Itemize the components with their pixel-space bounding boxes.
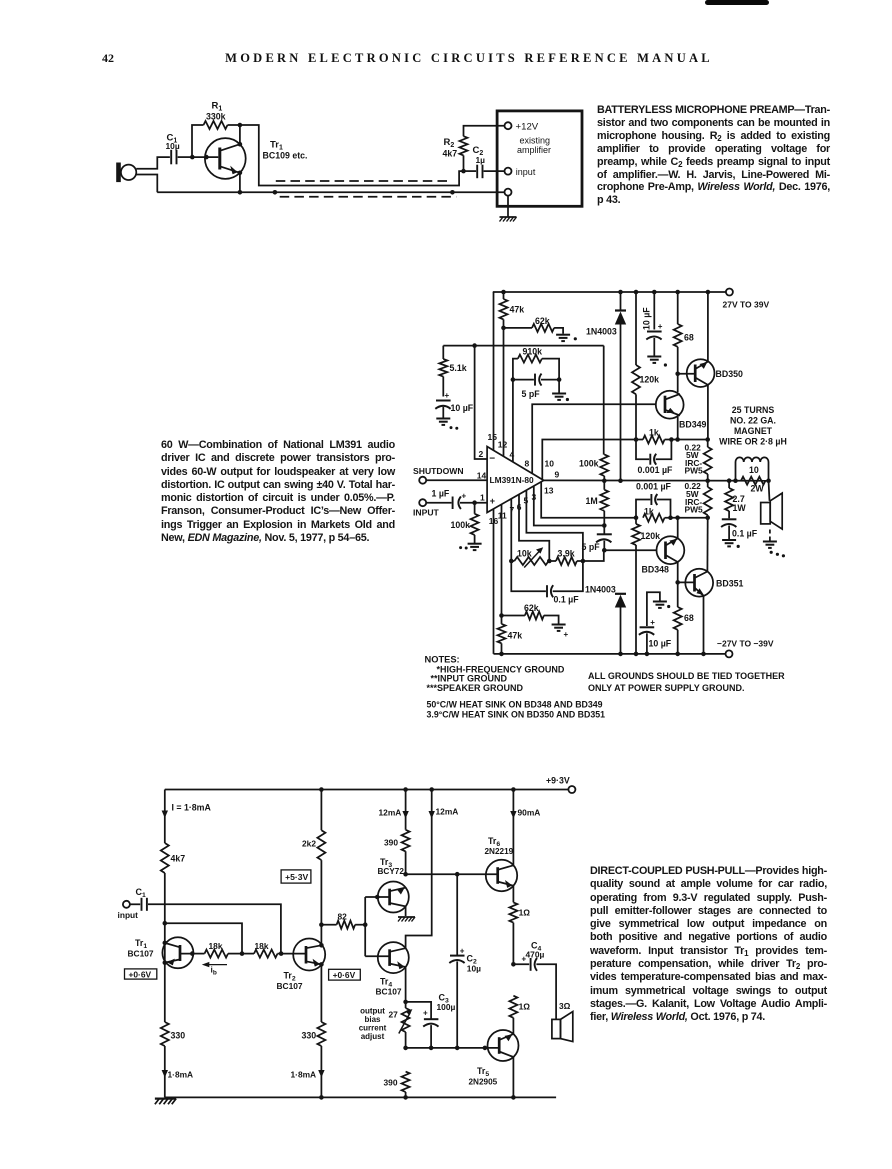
output line pin 9 (544, 479, 769, 481)
resistor R1 330k (204, 121, 228, 129)
svg-text:10 µF: 10 µF (451, 403, 474, 413)
caption: 60 W amplifier (161, 439, 395, 545)
svg-text:1Ω: 1Ω (519, 1002, 531, 1012)
input terminal (123, 901, 130, 908)
ground 5.1k/10uF (input ground) (436, 419, 450, 425)
resistor 1k upper (643, 436, 665, 444)
svg-text:13: 13 (544, 486, 554, 496)
svg-text:18k: 18k (209, 941, 223, 951)
capacitor C1 (171, 150, 176, 165)
transistor Tr6 2N2219 (486, 860, 517, 891)
svg-text:3Ω: 3Ω (559, 1001, 571, 1011)
resistor 1 ohm upper (512, 886, 514, 965)
wire node up to R1 (192, 125, 204, 157)
BD348 emitter wire up (677, 518, 679, 539)
transistor Tr3 BCY72 (378, 882, 409, 913)
running head title (23, 51, 892, 66)
svg-text:1·8mA: 1·8mA (291, 1070, 317, 1080)
current arrow I=1.8mA (162, 811, 168, 819)
svg-text:62k: 62k (524, 603, 539, 613)
resistor 4k7 (161, 843, 169, 873)
capacitor 0.1uF tone (511, 561, 546, 591)
resistor 1 ohm lower (509, 996, 517, 1018)
node base/R1 (190, 155, 195, 160)
svg-text:5.1k: 5.1k (450, 363, 467, 373)
BD351 collector wire down to rail (703, 596, 705, 654)
resistor 0.22 upper power (707, 440, 709, 448)
resistor R2 4k7 (460, 136, 468, 155)
svg-text:I = 1·8mA: I = 1·8mA (172, 803, 212, 813)
ground bottom rail (155, 1099, 176, 1105)
resistor 82 (321, 924, 336, 926)
resistor 390 lower (402, 1072, 410, 1092)
node 2k2/82 (319, 922, 324, 927)
node 120k/0.001 left (634, 437, 639, 442)
BD349 emitter wire down (677, 417, 679, 440)
node R1/collector (238, 123, 243, 128)
svg-text:***SPEAKER GROUND: ***SPEAKER GROUND (427, 683, 524, 693)
capacitor 0.001uF lower (636, 500, 650, 518)
dashed speaker ground lead (769, 530, 771, 541)
inductor L1 25 turns (736, 457, 769, 480)
potentiometer 10k (509, 559, 514, 564)
svg-text:330k: 330k (206, 112, 226, 122)
svg-text:3.9°C/W HEAT SINK ON BD350 AND: 3.9°C/W HEAT SINK ON BD350 AND BD351 (427, 710, 606, 720)
capacitor 5pF lower (596, 534, 612, 542)
BD348 base line (604, 549, 656, 551)
svg-text:BC107: BC107 (128, 949, 154, 959)
svg-text:+: + (462, 492, 467, 501)
pin 13 wire to 1k lower (541, 482, 636, 518)
svg-text:330: 330 (302, 1031, 317, 1041)
boxed label +0.6V (125, 969, 157, 979)
caption: batteryless microphone preamp (597, 104, 830, 207)
terminal input (505, 168, 512, 175)
svg-text:−27V TO −39V: −27V TO −39V (717, 639, 774, 649)
ground 910k (HF ground) (558, 380, 560, 393)
svg-text:15: 15 (488, 432, 498, 442)
wire +12V to R2 (464, 126, 505, 137)
pin 10 wire / 1k feed line (542, 440, 643, 480)
svg-text:1N4003: 1N4003 (585, 585, 616, 595)
svg-text:C1: C1 (136, 887, 147, 899)
node 47k/62k/pin12 (501, 326, 506, 331)
lower junction line (406, 1047, 488, 1049)
svg-text:WIRE OR 2·8 µH: WIRE OR 2·8 µH (719, 437, 787, 447)
svg-text:11: 11 (498, 511, 507, 521)
svg-text:47k: 47k (510, 305, 525, 315)
svg-text:BC107: BC107 (376, 987, 402, 997)
svg-text:BD350: BD350 (716, 369, 743, 379)
ground speaker (763, 542, 777, 548)
terminal INPUT (419, 499, 426, 506)
wire 3.9k to 5pF node (583, 550, 604, 561)
svg-text:PW5: PW5 (685, 505, 703, 515)
svg-text:1·8mA: 1·8mA (168, 1070, 194, 1080)
resistor 390 upper (405, 790, 407, 875)
svg-text:1 µF: 1 µF (432, 489, 450, 499)
svg-text:8: 8 (525, 459, 530, 469)
svg-text:68: 68 (684, 333, 694, 343)
svg-text:+: + (650, 618, 655, 627)
transistor Tr5 2N2905 (488, 1030, 519, 1061)
svg-text:390: 390 (384, 838, 398, 848)
svg-text:+: + (658, 322, 663, 331)
diode 1N4003 lower (615, 593, 626, 595)
ib arrow (206, 964, 227, 966)
input ground (468, 544, 482, 550)
svg-text:adjust: adjust (361, 1032, 385, 1041)
resistor 100k feedback (603, 346, 605, 455)
pin 16 riser to negative rail (493, 509, 495, 654)
resistor 47k upper (503, 292, 505, 299)
svg-text:1k: 1k (644, 507, 654, 517)
svg-text:910k: 910k (523, 347, 543, 357)
svg-text:R2: R2 (444, 137, 455, 149)
svg-text:14: 14 (477, 471, 487, 481)
Tr2 collector column with 2k2 (320, 790, 322, 1098)
svg-text:2N2219: 2N2219 (485, 847, 514, 856)
node pin2 riser (472, 343, 477, 348)
svg-text:input: input (516, 167, 536, 177)
feedback wire to 18k junction (165, 923, 242, 953)
ground zobel (speaker ground) (722, 540, 736, 546)
existing amplifier box (497, 111, 582, 206)
svg-text:1N4003: 1N4003 (586, 327, 617, 337)
svg-text:ib: ib (211, 965, 217, 977)
transistor Tr4 BC107 (378, 942, 409, 973)
current arrow 1.8mA Tr2 (318, 1070, 324, 1078)
resistor 5.1k (442, 346, 444, 359)
resistor 330 left (161, 1022, 169, 1046)
wire to C3 (406, 1002, 432, 1019)
transistor Q BD350 (678, 359, 715, 387)
svg-text:330: 330 (171, 1031, 186, 1041)
ground 62k lower (552, 625, 566, 631)
svg-text:3.9k: 3.9k (558, 549, 575, 559)
capacitor 10uF lower rail (639, 627, 654, 635)
resistor 100k input bias (474, 503, 476, 514)
terminal 27V TO 39V (726, 289, 733, 296)
wire C1 to base node (178, 156, 192, 158)
transistor Q BD351 (678, 569, 713, 597)
svg-text:NOTES:: NOTES: (425, 655, 460, 665)
svg-text:2W: 2W (751, 484, 765, 494)
terminal +12V (505, 122, 512, 129)
svg-text:BCY72: BCY72 (378, 867, 405, 876)
pin 12 riser wire (503, 328, 505, 456)
transistor Q BD349 (656, 391, 684, 419)
resistor 62k upper (504, 327, 533, 329)
node R2/C2/signal (461, 169, 466, 174)
resistor 330 Tr2 (317, 1022, 325, 1046)
pin 11 riser (501, 504, 503, 615)
wire collector up to R1 node (239, 125, 241, 144)
speaker SP1 (769, 481, 770, 501)
svg-text:1: 1 (480, 493, 485, 503)
node 5pF/base line (602, 548, 607, 553)
pin 15 riser wire to rail (493, 292, 495, 450)
node 910k/5pF left (511, 377, 516, 382)
svg-text:5 pF: 5 pF (522, 389, 541, 399)
svg-text:90mA: 90mA (518, 808, 541, 818)
wire to Tr6 base (406, 873, 486, 875)
svg-text:1W: 1W (733, 503, 747, 513)
svg-text:1Ω: 1Ω (519, 908, 531, 918)
op-amp U1 LM391N-80 (487, 447, 544, 513)
transistor Tr1 BC109 (192, 138, 245, 179)
svg-text:12mA: 12mA (436, 807, 459, 817)
svg-text:NO. 22 GA.: NO. 22 GA. (730, 416, 776, 426)
current arrow 1.8mA left (162, 1070, 168, 1078)
Tr4 emitter column (405, 967, 407, 1048)
resistor 62k lower (499, 613, 504, 618)
pin 2 riser wire (475, 346, 488, 459)
terminal +9.3V (568, 786, 575, 793)
resistor 1k lower (643, 514, 665, 522)
second rail drop 12mA (406, 790, 432, 949)
left column wire (Tr1 collector branch) (164, 790, 166, 1098)
svg-text:4k7: 4k7 (443, 149, 458, 159)
svg-text:100k: 100k (579, 459, 599, 469)
terminal SHUTDOWN pin14 (419, 477, 426, 484)
svg-text:100k: 100k (451, 520, 471, 530)
svg-text:PW5: PW5 (685, 466, 703, 476)
boxed label +0.6V second (329, 969, 361, 980)
svg-text:10k: 10k (517, 549, 532, 559)
BD350 collector wire to rail (707, 292, 709, 362)
capacitor 0.1uF zobel (721, 519, 736, 527)
terminal -27V TO -39V (726, 650, 733, 657)
pin 5 wire to 3.9k right node (526, 490, 583, 561)
svg-text:68: 68 (684, 613, 694, 623)
pin 8 wire to BD349 base (532, 404, 656, 473)
resistor 2.7 1W zobel (728, 481, 730, 488)
resistor 68 lower (677, 582, 679, 607)
resistor 3.9k (549, 560, 556, 562)
pin 3 wire to 1M/5pF node (534, 486, 605, 526)
svg-text:4k7: 4k7 (171, 854, 186, 864)
svg-text:1µ: 1µ (476, 155, 486, 165)
wire emitter down to ground rail (239, 173, 241, 193)
terminal ground (505, 189, 512, 196)
BD351 emitter wire up to 0.22 (706, 518, 708, 572)
black registration bar top right (705, 0, 769, 5)
svg-text:+: + (445, 391, 450, 400)
svg-text:10 µF: 10 µF (642, 307, 652, 330)
svg-text:470µ: 470µ (526, 950, 545, 960)
BD348 collector wire down (677, 562, 679, 582)
positive rail +9.3V (165, 789, 569, 791)
svg-text:25 TURNS: 25 TURNS (732, 405, 775, 415)
resistor 18k first (192, 953, 204, 955)
svg-text:10: 10 (749, 465, 759, 475)
capacitor 0.001uF upper (636, 440, 649, 460)
local ground block lower (HF ground) (647, 592, 660, 626)
pin 6 wire to pot wiper node (519, 494, 549, 561)
svg-text:SHUTDOWN: SHUTDOWN (413, 466, 464, 476)
node input/100k (472, 500, 477, 505)
svg-text:27V TO 39V: 27V TO 39V (723, 300, 770, 310)
svg-text:BD349: BD349 (679, 420, 706, 430)
wire mic to C1 and ground rail (136, 157, 170, 192)
svg-text:input: input (118, 910, 139, 920)
capacitor 10uF (shutdown filter) (435, 401, 450, 409)
svg-text:−: − (489, 454, 495, 465)
svg-text:LM391N-80: LM391N-80 (490, 475, 535, 485)
svg-text:47k: 47k (508, 631, 523, 641)
svg-text:120k: 120k (641, 531, 661, 541)
svg-text:100µ: 100µ (437, 1002, 456, 1012)
svg-text:BC109 etc.: BC109 etc. (263, 151, 308, 161)
ground 10uF upper (HF ground) (647, 357, 661, 363)
diode 1N4003 upper (620, 292, 622, 310)
svg-text:82: 82 (338, 912, 348, 922)
svg-text:0.1 µF: 0.1 µF (554, 595, 580, 605)
svg-text:+: + (460, 947, 465, 956)
capacitor 10uF upper rail (653, 292, 655, 330)
svg-text:2: 2 (479, 449, 484, 459)
svg-text:10: 10 (545, 459, 555, 469)
ground rail wire to amplifier (157, 191, 505, 193)
bias line y=345.6 (443, 345, 603, 347)
svg-text:existing: existing (520, 136, 551, 146)
ground 62k upper (HF ground) (556, 335, 570, 341)
node BD350 base / BD349 collector (675, 372, 680, 377)
svg-text:10µ: 10µ (166, 141, 180, 151)
current arrow 90mA (512, 790, 514, 866)
resistor 0.22 lower power (707, 481, 709, 487)
boxed label +5.3V (281, 870, 311, 883)
page number 42 (102, 51, 114, 66)
svg-text:BD351: BD351 (716, 579, 743, 589)
node 910k/5pF right (557, 377, 562, 382)
cable sheath dashed lines (276, 180, 449, 182)
svg-text:+: + (564, 630, 569, 639)
resistor 47k lower (501, 616, 503, 624)
svg-text:9: 9 (555, 470, 560, 480)
pin 4 riser wire (512, 380, 514, 462)
svg-text:1k: 1k (649, 428, 659, 438)
svg-text:10µ: 10µ (467, 964, 481, 974)
microphone (116, 163, 136, 183)
ground stem from amplifier (507, 196, 509, 217)
capacitor C2 1u (464, 170, 477, 172)
svg-text:+: + (423, 1009, 428, 1018)
node feedback (163, 921, 168, 926)
svg-text:27: 27 (389, 1010, 399, 1020)
resistor 1M (603, 481, 605, 490)
svg-text:ONLY AT POWER SUPPLY GROUND.: ONLY AT POWER SUPPLY GROUND. (588, 683, 745, 693)
resistor 120k lower (635, 518, 637, 524)
svg-text:10 µF: 10 µF (649, 639, 672, 649)
positive supply rail (493, 291, 726, 293)
capacitor C2 10uF (456, 874, 458, 955)
svg-text:+12V: +12V (516, 122, 539, 133)
signal wire from R1 node to R2/C2 node (240, 125, 463, 186)
svg-text:12mA: 12mA (379, 808, 402, 818)
svg-text:+9·3V: +9·3V (546, 776, 570, 786)
svg-text:5 pF: 5 pF (582, 542, 601, 552)
wire shutdown to pin 14 (426, 479, 487, 481)
svg-text:ALL GROUNDS SHOULD BE TIED TOG: ALL GROUNDS SHOULD BE TIED TOGETHER (588, 671, 785, 681)
svg-text:2k2: 2k2 (302, 839, 316, 849)
svg-text:+: + (490, 496, 495, 506)
svg-text:BC107: BC107 (277, 981, 303, 991)
svg-text:BD348: BD348 (642, 565, 669, 575)
capacitor 1uF input (426, 502, 451, 504)
caption: direct-coupled push-pull (590, 865, 827, 1025)
svg-text:390: 390 (384, 1078, 398, 1088)
svg-text:0.001 µF: 0.001 µF (638, 465, 674, 475)
transistor Tr1 BC107 (162, 937, 193, 968)
resistor 10 2W damping (741, 477, 765, 485)
resistor 120k upper (635, 292, 637, 365)
resistor 18k second (242, 953, 254, 955)
transistor Q BD348 (657, 536, 685, 564)
Tr3 collector to ground (405, 906, 407, 916)
riser to Tr3/Tr4 bases (365, 897, 378, 956)
svg-text:amplifier: amplifier (517, 145, 551, 155)
svg-text:+5·3V: +5·3V (285, 872, 308, 882)
negative rail (ground return) (165, 1096, 556, 1098)
svg-text:18k: 18k (255, 941, 269, 951)
transistor Tr2 BC107 (281, 939, 325, 971)
BD349 collector wire up (677, 374, 679, 393)
svg-text:Tr5: Tr5 (477, 1066, 489, 1078)
svg-text:1M: 1M (586, 496, 598, 506)
potentiometer 27 bias adjust (402, 1008, 410, 1032)
svg-text:MAGNET: MAGNET (734, 426, 773, 436)
ground (hatched) (500, 217, 517, 222)
svg-text:0.001 µF: 0.001 µF (636, 482, 672, 492)
capacitor C1 input (130, 903, 140, 905)
svg-text:0.1 µF: 0.1 µF (732, 529, 758, 539)
node 390/Tr3/line to Tr6 (403, 872, 408, 877)
svg-text:INPUT: INPUT (413, 508, 440, 518)
svg-text:62k: 62k (535, 316, 550, 326)
capacitor C3 100uF (423, 1019, 438, 1026)
svg-text:120k: 120k (640, 375, 660, 385)
resistor 68 upper (677, 292, 679, 324)
svg-text:+0·6V: +0·6V (333, 970, 356, 980)
svg-text:50°C/W HEAT SINK ON BD348 AND: 50°C/W HEAT SINK ON BD348 AND BD349 (427, 700, 603, 710)
resistor 910k (513, 359, 518, 380)
BD350 emitter wire down (707, 385, 709, 440)
node 1M/5pF (602, 523, 607, 528)
capacitor C4 470uF (513, 963, 529, 965)
capacitor 5pF compensation (513, 379, 534, 381)
resistor 2k2 (317, 830, 325, 860)
svg-text:2N2905: 2N2905 (469, 1078, 498, 1087)
negative supply rail (494, 653, 726, 655)
current arrow 12mA first (402, 811, 408, 819)
svg-text:+0·6V: +0·6V (129, 969, 152, 979)
pin 7 riser (510, 499, 512, 561)
